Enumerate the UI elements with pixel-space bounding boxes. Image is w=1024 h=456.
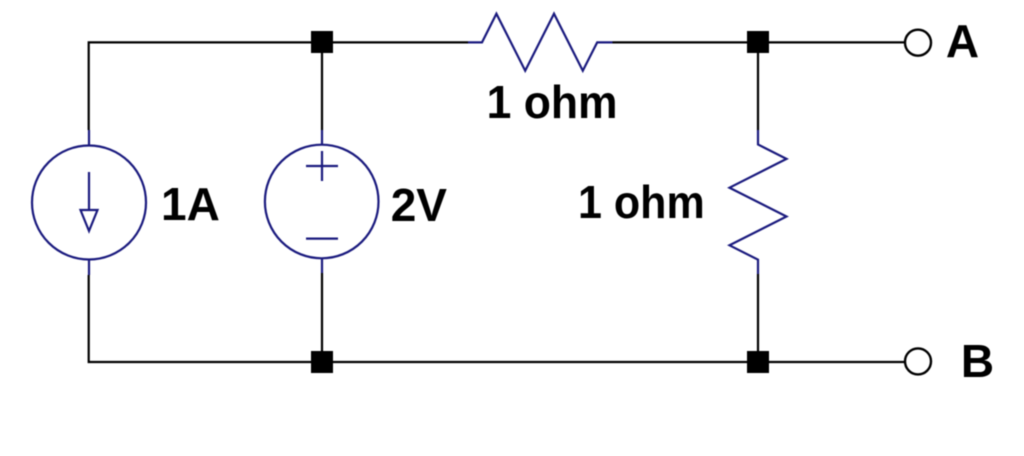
svg-text:1 ohm: 1 ohm xyxy=(578,176,705,228)
svg-text:1 ohm: 1 ohm xyxy=(487,76,618,128)
svg-text:B: B xyxy=(961,335,994,387)
svg-text:1A: 1A xyxy=(161,178,220,230)
svg-text:2V: 2V xyxy=(391,179,448,231)
svg-text:A: A xyxy=(946,15,979,67)
